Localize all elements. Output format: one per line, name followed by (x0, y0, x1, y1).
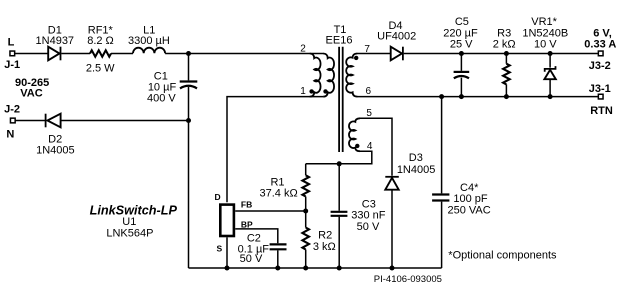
svg-text:50 V: 50 V (240, 253, 263, 265)
svg-text:7: 7 (364, 44, 370, 55)
svg-text:J3-2: J3-2 (589, 60, 611, 72)
svg-text:5: 5 (366, 108, 372, 119)
svg-text:L: L (8, 36, 15, 48)
svg-text:8.2 Ω: 8.2 Ω (87, 35, 114, 47)
svg-text:VAC: VAC (20, 87, 42, 99)
svg-text:J3-1: J3-1 (589, 83, 611, 95)
svg-text:VR1*: VR1* (531, 16, 557, 28)
svg-text:6: 6 (366, 86, 372, 97)
svg-text:U1: U1 (122, 216, 136, 228)
svg-text:50 V: 50 V (357, 221, 380, 233)
svg-text:PI-4106-093005: PI-4106-093005 (374, 274, 442, 285)
svg-text:3300 µH: 3300 µH (128, 35, 170, 47)
svg-text:LinkSwitch-LP: LinkSwitch-LP (90, 204, 178, 218)
svg-text:S: S (217, 243, 223, 253)
svg-text:330 nF: 330 nF (351, 210, 386, 222)
svg-text:J-1: J-1 (4, 59, 20, 71)
svg-text:25 V: 25 V (450, 38, 473, 50)
svg-text:R2: R2 (318, 230, 332, 242)
svg-text:400 V: 400 V (147, 92, 176, 104)
svg-text:1N4937: 1N4937 (36, 35, 75, 47)
svg-text:RTN: RTN (590, 105, 613, 117)
svg-text:UF4002: UF4002 (377, 30, 416, 42)
svg-text:*Optional components: *Optional components (448, 249, 557, 261)
svg-text:1: 1 (300, 86, 306, 97)
svg-text:10 V: 10 V (534, 38, 557, 50)
svg-text:37.4 kΩ: 37.4 kΩ (259, 187, 297, 199)
svg-text:3 kΩ: 3 kΩ (313, 241, 336, 253)
svg-text:1N4005: 1N4005 (36, 144, 75, 156)
svg-text:D3: D3 (409, 152, 423, 164)
svg-text:2: 2 (300, 44, 306, 55)
svg-text:C4*: C4* (460, 182, 479, 194)
svg-text:0.33 A: 0.33 A (584, 38, 616, 50)
svg-text:BP: BP (241, 219, 253, 229)
svg-text:J-2: J-2 (4, 104, 20, 116)
svg-text:4: 4 (367, 141, 373, 152)
svg-text:FB: FB (241, 200, 252, 210)
svg-text:2 kΩ: 2 kΩ (493, 38, 516, 50)
svg-text:1N4005: 1N4005 (397, 164, 436, 176)
svg-text:D: D (215, 192, 221, 202)
svg-text:250 VAC: 250 VAC (447, 204, 490, 216)
svg-text:2.5 W: 2.5 W (86, 63, 115, 75)
svg-text:100 pF: 100 pF (453, 193, 488, 205)
svg-text:EE16: EE16 (326, 35, 353, 47)
svg-text:C5: C5 (455, 16, 469, 28)
svg-text:LNK564P: LNK564P (106, 228, 153, 240)
svg-text:N: N (6, 129, 14, 141)
